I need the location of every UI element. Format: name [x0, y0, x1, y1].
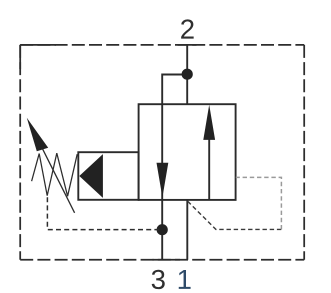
- port label 1: [179, 270, 191, 289]
- wire: node branch from port 2 to left flow path: [162, 75, 187, 105]
- enclosure boundary (dashed cartridge envelope): [20, 45, 304, 260]
- wire: port 1 vertical line: [186, 200, 188, 260]
- pilot pressure tap line (dashed, from port 1): [188, 201, 282, 229]
- junction node (drain to port 3): [157, 224, 168, 235]
- pilot stage box: [78, 152, 138, 200]
- port label 3: [152, 270, 165, 289]
- port label 2: [181, 19, 194, 38]
- wire: left flow path through body down to port 3: [161, 104, 163, 260]
- pilot drain line (dashed) to port 3 node: [47, 197, 162, 229]
- wire: port 2 vertical line: [186, 45, 188, 104]
- main valve body: [139, 104, 236, 200]
- junction node (port 2 branch): [182, 69, 193, 80]
- flow arrow down (main stage to tank): [157, 163, 169, 198]
- wire: right flow path line: [208, 138, 210, 200]
- adjustment arrow shaft: [40, 143, 75, 213]
- pilot pressure line (dashed, gray, to body right side): [236, 177, 282, 229]
- adjustment arrow head: [27, 118, 48, 152]
- spring (pressure setting): [32, 153, 78, 196]
- pilot poppet (seat valve cone): [79, 154, 103, 198]
- flow arrow up (check path): [203, 105, 215, 140]
- enclosure boundary solid phase at port crossings: [20, 45, 196, 260]
